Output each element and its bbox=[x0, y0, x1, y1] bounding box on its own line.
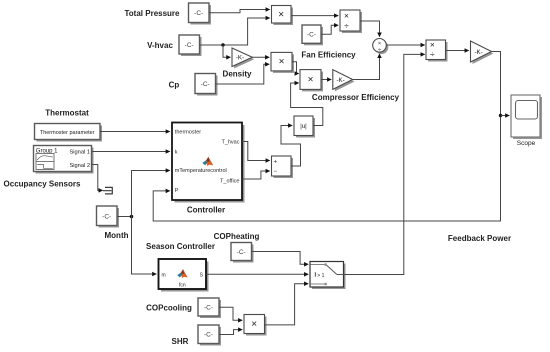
svg-text:T_office: T_office bbox=[220, 179, 239, 185]
wire junction to controller m input bbox=[132, 171, 170, 217]
svg-text:Thermoster parameter: Thermoster parameter bbox=[40, 130, 95, 136]
wire Signal 2 to terminator bbox=[92, 165, 103, 191]
wire SHR to product4 bbox=[219, 330, 242, 335]
svg-text:SHR: SHR bbox=[172, 337, 189, 346]
wire T_hvac to sum plus bbox=[242, 142, 270, 161]
svg-text:Compressor Efficiency: Compressor Efficiency bbox=[312, 93, 400, 102]
sum block plus minus bbox=[272, 156, 294, 178]
svg-text:mTemperaturecontrol: mTemperaturecontrol bbox=[175, 168, 227, 174]
svg-text:P: P bbox=[175, 188, 179, 194]
node junction V-hvac bbox=[221, 43, 224, 46]
svg-text:thermoster: thermoster bbox=[175, 129, 201, 135]
svg-text:Season Controller: Season Controller bbox=[146, 242, 215, 251]
svg-text:V-hvac: V-hvac bbox=[147, 41, 173, 50]
svg-text:T_hvac: T_hvac bbox=[221, 140, 239, 146]
wire sum to abs bbox=[281, 126, 301, 167]
svg-text:-C-: -C- bbox=[201, 81, 210, 88]
svg-text:-C-: -C- bbox=[102, 213, 111, 220]
svg-text:> 1: > 1 bbox=[317, 273, 324, 279]
wire COPcooling to product4 bbox=[219, 307, 242, 320]
svg-text:Thermostat: Thermostat bbox=[45, 109, 89, 118]
gain Density -K- bbox=[232, 48, 254, 69]
svg-text:Occupancy Sensors: Occupancy Sensors bbox=[4, 180, 81, 189]
svg-text:Feedback Power: Feedback Power bbox=[448, 234, 511, 243]
wire abs to product3 lower input bbox=[291, 83, 323, 126]
svg-text:Scope: Scope bbox=[517, 140, 536, 147]
constant Total Pressure bbox=[189, 3, 212, 25]
matlab function block fcn bbox=[159, 259, 209, 292]
constant COPheating bbox=[231, 243, 254, 263]
wire V-hvac to product1 bbox=[200, 18, 270, 45]
constant SHR bbox=[198, 325, 221, 346]
wire Fan Efficiency constant to divide1 bbox=[321, 25, 338, 34]
svg-text:Signal 2: Signal 2 bbox=[69, 163, 90, 169]
svg-text:Controller: Controller bbox=[187, 206, 225, 215]
svg-text:-K-: -K- bbox=[336, 77, 344, 84]
node junction Month bbox=[130, 215, 134, 219]
wire fcn S to switch middle input bbox=[206, 273, 308, 275]
svg-text:-K-: -K- bbox=[474, 49, 482, 56]
wire Density to product2 bbox=[252, 56, 269, 58]
constant V-hvac bbox=[179, 35, 202, 56]
svg-text:Signal 1: Signal 1 bbox=[69, 150, 90, 156]
wire round divide to divide2 bbox=[386, 44, 424, 46]
svg-text:÷: ÷ bbox=[430, 49, 435, 59]
svg-text:Fan Efficiency: Fan Efficiency bbox=[301, 51, 356, 60]
svg-text:Total Pressure: Total Pressure bbox=[125, 9, 181, 18]
svg-text:×: × bbox=[279, 57, 285, 68]
svg-text:-C-: -C- bbox=[185, 42, 194, 49]
wire divide2 to feedback gain bbox=[446, 50, 469, 52]
svg-text:−: − bbox=[273, 169, 277, 175]
svg-text:×: × bbox=[251, 319, 257, 330]
node junction scope tap bbox=[499, 114, 502, 117]
svg-text:k: k bbox=[175, 149, 178, 155]
svg-text:-K-: -K- bbox=[236, 55, 244, 62]
wire product2 to product3 bbox=[292, 62, 299, 74]
wire switch output to divide2 lower input bbox=[344, 54, 425, 274]
wire product3 to compressor gain bbox=[321, 79, 331, 81]
wire COPheating to switch top input bbox=[252, 252, 309, 265]
block Thermoster parameter bbox=[35, 124, 103, 142]
svg-text:×: × bbox=[278, 10, 284, 21]
product block 4 (COPcooling x SHR) bbox=[244, 315, 267, 336]
wire T_office to sum minus bbox=[242, 171, 270, 179]
wire product1 to divide1 bbox=[291, 15, 338, 17]
switch block bbox=[310, 262, 346, 290]
svg-text:|u|: |u| bbox=[300, 124, 307, 130]
svg-text:-C-: -C- bbox=[307, 32, 316, 39]
round divide block bbox=[373, 39, 389, 55]
svg-text:×: × bbox=[378, 41, 381, 47]
product block 2 (Density x Cp) bbox=[271, 52, 294, 73]
svg-text:Density: Density bbox=[223, 70, 252, 79]
svg-text:COPheating: COPheating bbox=[214, 232, 260, 241]
signal builder Group 1 bbox=[34, 146, 94, 174]
wire Cp to product2 bbox=[216, 64, 270, 84]
svg-text:-C-: -C- bbox=[204, 304, 213, 311]
constant Month bbox=[97, 206, 120, 228]
wire Month to junction bbox=[117, 216, 132, 218]
divide block 1 bbox=[340, 10, 362, 33]
terminator block bbox=[103, 187, 113, 195]
wire junction to fcn m input bbox=[132, 217, 157, 275]
product block 1 (Total Pressure x V-hvac) bbox=[272, 6, 294, 26]
svg-text:m: m bbox=[162, 272, 166, 278]
gain feedback -K- bbox=[471, 41, 494, 64]
subsystem Controller bbox=[172, 123, 245, 203]
svg-text:+: + bbox=[273, 160, 277, 166]
svg-text:Month: Month bbox=[105, 231, 129, 240]
svg-text:×: × bbox=[430, 39, 435, 49]
wire Thermoster parameter to controller thermoster bbox=[100, 131, 170, 133]
wire junction to scope bbox=[501, 115, 510, 117]
wire Total Pressure to product1 bbox=[209, 10, 270, 13]
scope block bbox=[511, 95, 542, 139]
divide block 2 bbox=[426, 39, 448, 61]
svg-text:×: × bbox=[344, 11, 349, 21]
constant Fan Efficiency bbox=[302, 25, 323, 45]
svg-text:-C-: -C- bbox=[237, 249, 246, 256]
svg-text:÷: ÷ bbox=[344, 20, 349, 30]
svg-text:COPcooling: COPcooling bbox=[146, 303, 192, 312]
wire feedback gain to P input (feedback loop) bbox=[153, 52, 500, 222]
svg-text:÷: ÷ bbox=[378, 47, 381, 53]
svg-text:-C-: -C- bbox=[204, 332, 213, 339]
gain Compressor -K- bbox=[333, 70, 355, 92]
wire junction to Density gain bbox=[223, 45, 230, 57]
product block 3 bbox=[300, 70, 323, 92]
svg-text:Cp: Cp bbox=[169, 81, 180, 90]
wire product4 to switch bottom input bbox=[265, 284, 309, 325]
wire Signal 1 to controller k bbox=[92, 151, 170, 153]
svg-text:fcn: fcn bbox=[179, 282, 186, 288]
wire compressor gain to round divide bottom bbox=[353, 54, 380, 80]
svg-text:×: × bbox=[308, 75, 314, 86]
wire divide1 to round divide bbox=[360, 21, 380, 37]
abs block |u| bbox=[294, 116, 315, 138]
svg-text:-C-: -C- bbox=[194, 10, 203, 17]
constant Cp bbox=[195, 74, 218, 96]
constant COPcooling bbox=[198, 298, 221, 318]
